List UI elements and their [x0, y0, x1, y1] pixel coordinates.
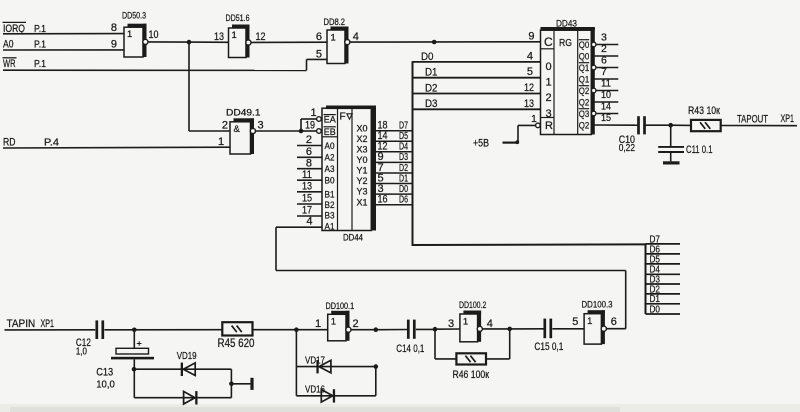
node junction DD100.1 input	[294, 327, 299, 332]
svg-text:11: 11	[601, 77, 611, 89]
svg-text:10,0: 10,0	[96, 379, 115, 391]
bus stub D6	[646, 253, 681, 255]
wire DD51.6 pin 12 to DD8.2 pin 6	[251, 41, 327, 43]
diode VD17 (cathode left)	[296, 330, 375, 374]
IC DD43 register body	[541, 27, 595, 135]
DD43 pin 6 stub	[596, 67, 618, 69]
logic gate DD100.3	[582, 300, 613, 345]
bus wire D1 to DD43 pin 5	[413, 77, 541, 79]
svg-text:DD50.3: DD50.3	[122, 11, 146, 21]
wire VD16 right side up	[375, 367, 377, 396]
svg-text:DD51.6: DD51.6	[226, 13, 250, 23]
bus wire D0 to DD43 pin 4	[413, 61, 541, 63]
svg-text:Y0: Y0	[357, 155, 368, 165]
svg-text:13: 13	[524, 98, 534, 110]
output bubble DD8.2 pin 4	[345, 40, 350, 45]
capacitor C13 electrolytic	[111, 348, 154, 359]
DD43 output label Q0 inverted row 1	[579, 40, 590, 50]
net label RD P.4	[3, 137, 59, 149]
value label C13 10,0	[96, 367, 115, 391]
svg-text:P.1: P.1	[34, 58, 46, 70]
svg-text:F: F	[340, 112, 346, 123]
bus stub D5	[646, 263, 681, 265]
wire C13 to diode pair	[133, 359, 135, 397]
node dot at VD19 row	[132, 367, 137, 372]
wire DD8.2 pin 4 to DD43 pin C	[350, 41, 541, 43]
svg-text:C15 0,1: C15 0,1	[534, 341, 563, 353]
svg-text:VD16: VD16	[305, 385, 325, 396]
wire IORQ to DD50.3 pin 8	[3, 33, 124, 35]
DD43 pin 3 stub	[596, 44, 618, 46]
bus wire D3 to DD43 pin 13	[413, 108, 541, 110]
svg-text:P.1: P.1	[34, 39, 46, 51]
node junction DD100.1 output	[374, 327, 379, 332]
value label C10 0,22	[619, 134, 635, 154]
svg-text:D3: D3	[399, 152, 408, 163]
logic gate DD100.2	[459, 300, 486, 342]
logic gate DD49.1	[226, 108, 261, 155]
svg-text:XP1: XP1	[41, 318, 55, 330]
capacitor C11	[658, 125, 684, 161]
svg-text:DD100.3: DD100.3	[582, 300, 613, 310]
svg-text:5: 5	[572, 316, 578, 328]
svg-text:X1: X1	[357, 197, 368, 207]
svg-text:X2: X2	[357, 134, 368, 144]
wire RD to DD49.1 pin 1	[3, 146, 230, 149]
svg-text:P.4: P.4	[44, 137, 59, 149]
svg-text:X3: X3	[357, 144, 368, 154]
net label IORQ P.1	[3, 22, 47, 34]
svg-text:1: 1	[218, 136, 224, 148]
wire DD100.1 output to C14	[376, 329, 407, 331]
input bubble DD44 pin 1	[317, 117, 322, 122]
wire DD100.1 pin 2 to output node	[351, 329, 376, 331]
logic gate DD50.3	[122, 11, 147, 58]
DD43 output bubble pin 3	[591, 42, 596, 47]
node dot at +5B corner	[515, 140, 519, 144]
svg-text:5: 5	[316, 48, 322, 60]
svg-text:15: 15	[601, 112, 611, 124]
svg-text:C11 0.1: C11 0.1	[686, 144, 713, 156]
svg-text:13: 13	[214, 31, 224, 43]
svg-text:A2: A2	[325, 153, 335, 163]
data bus vertical segment	[412, 61, 414, 245]
wire DD43 pin 15 to C10	[591, 124, 637, 126]
svg-text:D5: D5	[650, 254, 661, 265]
DD43 output label Q0 row 2	[579, 51, 590, 61]
svg-text:D6: D6	[399, 195, 408, 206]
output bubble DD51.6 pin 12	[246, 40, 251, 45]
bus wire D2 to DD43 pin 12	[413, 93, 541, 95]
DD43 output label Q2 row 6	[579, 97, 590, 107]
svg-text:D4: D4	[399, 142, 408, 153]
svg-text:+5B: +5B	[473, 138, 489, 150]
ground bar	[250, 378, 253, 390]
svg-text:B2: B2	[325, 200, 335, 210]
svg-text:10: 10	[601, 89, 611, 101]
svg-text:D0: D0	[421, 51, 434, 63]
wire node to DD100.1 pin 1	[296, 329, 327, 331]
svg-text:EB: EB	[324, 127, 336, 137]
svg-text:DD8.2: DD8.2	[324, 17, 346, 27]
bus stub D3	[646, 283, 681, 285]
DD43 reset bubble pin 1	[536, 123, 541, 128]
svg-text:A0: A0	[325, 141, 335, 151]
svg-text:&: &	[234, 124, 241, 135]
diode VD19 lower (cathode right)	[134, 391, 231, 404]
node junction at DD50.3 output	[187, 40, 192, 45]
svg-text:1: 1	[331, 317, 336, 328]
svg-text:B0: B0	[325, 176, 335, 186]
svg-text:3: 3	[258, 119, 264, 131]
DD43 pin 2 stub	[591, 55, 618, 57]
svg-text:1: 1	[127, 29, 132, 40]
svg-text:DD43: DD43	[556, 19, 577, 29]
DD44 pin 8 stub	[297, 168, 322, 170]
svg-text:R: R	[545, 120, 553, 132]
svg-text:8: 8	[306, 157, 312, 169]
svg-text:12: 12	[524, 82, 534, 94]
svg-text:4: 4	[487, 318, 493, 330]
IC DD44 multiplexer body	[322, 106, 376, 231]
wire R43 to TAPOUT	[721, 125, 797, 127]
DD43 output label Q1 row 4	[579, 74, 590, 84]
svg-text:5: 5	[527, 66, 533, 78]
data bus bottom horizontal segment	[412, 243, 647, 246]
DD44 pin 12 wire to data bus	[371, 151, 412, 153]
output bubble DD49.1 pin 3	[250, 128, 255, 133]
DD43 pin 11 stub	[596, 90, 618, 92]
ground symbol wire	[231, 383, 250, 385]
resistor R45	[222, 322, 252, 335]
DD43 output label Q2 row 8	[579, 120, 590, 130]
svg-text:10: 10	[149, 29, 159, 41]
svg-text:Q0: Q0	[579, 51, 590, 61]
DD44 pin 3 wire to data bus	[371, 193, 412, 195]
net label WR P.1	[3, 58, 47, 70]
feedback wire to R46	[435, 329, 456, 359]
capacitor C14	[407, 320, 416, 339]
wire node to R43	[671, 124, 691, 126]
wire junction to DD49.1 pin 2	[189, 130, 230, 132]
feedback wire R46 to output node	[486, 329, 510, 359]
svg-text:D7: D7	[399, 121, 408, 132]
DD44 pin 17 stub	[297, 215, 322, 217]
node junction DD100.2 output	[507, 327, 512, 332]
svg-text:Q3: Q3	[579, 109, 590, 119]
svg-text:6: 6	[306, 146, 312, 158]
capacitor C15	[543, 319, 552, 339]
node junction DD100.2 input	[433, 327, 438, 332]
wire DD100.2 output to C15	[510, 328, 544, 330]
svg-text:14: 14	[601, 100, 611, 112]
svg-text:Y3: Y3	[357, 187, 368, 197]
svg-text:RG: RG	[559, 37, 572, 49]
DD44 label EB with overline	[324, 127, 336, 137]
node junction EA/EB	[299, 129, 304, 134]
wire C14 to DD100.2 input node	[416, 328, 435, 330]
svg-text:TAPIN: TAPIN	[7, 318, 36, 330]
svg-text:D0: D0	[650, 304, 661, 315]
output bubble DD50.3 pin 10	[143, 39, 148, 44]
svg-text:RD: RD	[3, 137, 16, 149]
bus stub D1	[646, 303, 681, 305]
wire +5B to DD43 R pin	[503, 125, 536, 142]
svg-text:1: 1	[587, 316, 592, 327]
DD43 pin 10 stub	[591, 101, 618, 103]
svg-text:DD49.1: DD49.1	[226, 108, 261, 118]
svg-text:12: 12	[256, 31, 266, 43]
wire R45 to DD100.1 input node	[253, 329, 297, 331]
svg-text:1: 1	[463, 316, 468, 327]
DD44 pin 18 wire to data bus	[371, 130, 412, 132]
svg-text:13: 13	[302, 180, 312, 192]
svg-text:D1: D1	[425, 67, 438, 79]
net label TAPIN XP1	[7, 318, 55, 330]
svg-text:DD44: DD44	[343, 232, 363, 242]
svg-text:Y2: Y2	[357, 176, 368, 186]
DD43 output bubble pin 6	[591, 65, 596, 70]
svg-text:D3: D3	[425, 98, 438, 110]
DD43 output label Q3 inverted row 7	[579, 109, 590, 119]
DD43 pin 7 stub	[591, 78, 618, 80]
node junction after C12	[132, 328, 137, 333]
svg-text:1: 1	[546, 76, 552, 88]
wire DD100.2 pin 4 to output node	[482, 328, 510, 330]
svg-text:A1: A1	[325, 222, 335, 232]
svg-text:R46 100к: R46 100к	[453, 369, 490, 381]
wire C15 to DD100.3 pin 5	[552, 328, 584, 330]
DD44 pin 5 wire to data bus	[371, 183, 412, 185]
svg-text:2: 2	[222, 119, 228, 131]
svg-text:1: 1	[331, 33, 336, 44]
svg-text:1: 1	[531, 113, 537, 125]
svg-text:C: C	[544, 35, 553, 49]
svg-text:WR: WR	[3, 58, 16, 70]
svg-text:D0: D0	[399, 184, 408, 195]
wire WR to DD8.2 pin 5	[3, 59, 327, 70]
DD44 pin 7 wire to data bus	[371, 172, 412, 174]
input bubble DD44 pin 19	[317, 129, 322, 134]
svg-text:TAPOUT: TAPOUT	[737, 114, 768, 126]
logic gate DD51.6	[226, 13, 250, 58]
DD44 pin 14 wire to data bus	[371, 140, 412, 142]
svg-text:Q1: Q1	[579, 63, 590, 73]
svg-text:4: 4	[353, 31, 359, 43]
svg-text:2: 2	[546, 92, 552, 104]
bus stub D2	[646, 293, 681, 295]
capacitor C10	[637, 116, 646, 134]
wire DD50.3 pin 10 to junction	[148, 41, 189, 43]
svg-text:1: 1	[315, 318, 321, 330]
svg-text:1: 1	[232, 30, 237, 41]
svg-text:3: 3	[601, 31, 607, 43]
wire node to DD100.2 pin 3	[435, 328, 460, 330]
wire node down to C13	[133, 330, 135, 349]
node junction C10/C11/R43	[668, 123, 673, 128]
capacitor C13 polarity mark	[137, 341, 142, 346]
svg-text:R45 620: R45 620	[218, 338, 255, 350]
output bubble DD100.2 pin 4	[477, 326, 482, 331]
svg-text:9: 9	[528, 31, 534, 43]
svg-text:Y1: Y1	[357, 166, 368, 176]
wire A0 to DD50.3 pin 9	[3, 49, 124, 51]
svg-text:19: 19	[305, 120, 315, 132]
DD44 pin 13 stub	[297, 191, 322, 193]
DD44 EB cell divider	[322, 136, 338, 138]
svg-text:Q0: Q0	[579, 40, 590, 50]
bus stub D4	[646, 273, 681, 275]
wire DD100.3 pin 6 to feedback riser	[606, 328, 626, 330]
svg-text:1: 1	[311, 107, 317, 119]
svg-text:3: 3	[448, 318, 454, 330]
svg-text:2: 2	[353, 318, 359, 330]
wire diode pair right side	[230, 369, 232, 398]
svg-text:EA: EA	[324, 115, 336, 125]
svg-text:X0: X0	[357, 123, 368, 133]
svg-text:Q2: Q2	[579, 97, 590, 107]
wire junction down to DD49.1 pin 2	[188, 42, 190, 131]
svg-text:3: 3	[546, 108, 552, 120]
svg-text:6: 6	[316, 31, 322, 43]
svg-text:7: 7	[601, 66, 607, 78]
DD43 output bubble pin 14	[591, 111, 596, 116]
diode VD16 (cathode right)	[296, 367, 375, 403]
output bubble DD100.1 pin 2	[346, 327, 351, 332]
svg-text:D5: D5	[399, 131, 408, 142]
wire C12 to node	[105, 329, 223, 331]
DD44 function label F	[340, 112, 353, 123]
node dot at ground tap	[229, 382, 234, 387]
DD44 pin 2 stub	[297, 145, 322, 147]
svg-text:6: 6	[611, 316, 617, 328]
DD44 pin 11 stub	[297, 179, 322, 181]
svg-text:6: 6	[601, 54, 607, 66]
wire C10 to node	[645, 124, 670, 126]
logic gate DD8.2	[324, 17, 349, 64]
svg-text:2: 2	[306, 134, 312, 146]
value label C12 1,0	[76, 337, 91, 358]
net label A0 P.1	[3, 39, 46, 51]
svg-text:11: 11	[302, 169, 312, 181]
wire TAPIN to C12	[5, 329, 96, 331]
svg-text:XP1: XP1	[781, 113, 795, 125]
wire node to DD44 pin 1 EA	[301, 119, 317, 131]
bus stub D7	[646, 243, 681, 245]
svg-text:A0: A0	[3, 39, 14, 51]
svg-text:B3: B3	[325, 211, 335, 221]
svg-text:VD19: VD19	[177, 351, 197, 362]
resistor R43	[691, 120, 721, 131]
DD44 pin 9 wire to data bus	[371, 161, 412, 163]
wire DD44 pin 4 A1 feedback from DD100.3	[276, 227, 626, 329]
svg-text:4: 4	[527, 50, 533, 62]
svg-text:VD17: VD17	[305, 355, 325, 366]
svg-text:DD100.1: DD100.1	[326, 301, 355, 311]
DD43 output label Q2 inverted row 5	[579, 86, 590, 96]
DD43 output label Q1 inverted row 3	[579, 63, 590, 73]
DD44 pin 15 stub	[297, 203, 322, 205]
DD44 label EA with overline	[324, 115, 336, 125]
net label TAPOUT XP1	[737, 113, 794, 125]
svg-text:DD100.2: DD100.2	[459, 300, 486, 310]
svg-text:Q2: Q2	[579, 120, 590, 130]
svg-text:0,22: 0,22	[619, 142, 635, 154]
DD43 output bubble pin 11	[591, 88, 596, 93]
data bus right vertical segment	[645, 244, 647, 314]
svg-text:1,0: 1,0	[76, 346, 87, 358]
svg-text:16: 16	[378, 194, 388, 206]
resistor R46	[456, 353, 486, 364]
svg-text:2: 2	[601, 43, 607, 55]
wire node to DD44 pin 19 EB	[301, 130, 317, 132]
svg-text:D1: D1	[399, 173, 408, 184]
svg-text:A3: A3	[325, 164, 335, 174]
svg-text:C13: C13	[96, 367, 113, 379]
svg-text:Q2: Q2	[579, 86, 590, 96]
wire junction to DD51.6 pin 13	[189, 41, 229, 43]
svg-text:R43 10к: R43 10к	[688, 105, 720, 117]
capacitor C12	[95, 320, 104, 339]
logic gate DD100.1	[326, 301, 355, 341]
wire DD49.1 pin 3 to EA/EB node	[255, 130, 301, 132]
svg-text:4: 4	[306, 216, 312, 228]
output bubble DD100.3 pin 6	[601, 326, 606, 331]
ground bar under C11	[663, 161, 680, 164]
svg-text:D2: D2	[399, 163, 408, 174]
svg-text:B1: B1	[325, 189, 335, 199]
DD44 pin 6 stub	[297, 156, 322, 158]
svg-text:C14 0,1: C14 0,1	[396, 343, 424, 355]
svg-text:D2: D2	[425, 82, 438, 94]
bus stub D0	[646, 313, 681, 315]
DD43 pin 14 stub	[596, 113, 618, 115]
node dot VD17 right	[374, 364, 379, 369]
svg-text:0: 0	[546, 61, 552, 73]
svg-text:15: 15	[302, 193, 312, 205]
node dot on C wire	[432, 40, 437, 45]
svg-text:Q1: Q1	[579, 74, 590, 84]
svg-text:8: 8	[111, 22, 117, 34]
DD44 pin 16 wire to data bus	[371, 204, 412, 206]
diode VD19 upper (cathode left)	[134, 363, 231, 376]
svg-text:9: 9	[111, 38, 117, 50]
